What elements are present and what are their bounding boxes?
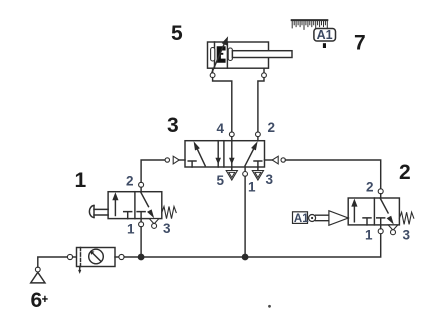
V2 actuator A1 label box	[293, 212, 310, 225]
svg-text:2: 2	[399, 161, 411, 184]
wire V3 port1 to bus	[244, 176, 246, 257]
svg-text:1: 1	[75, 169, 87, 192]
sensor A1 mark	[323, 43, 326, 48]
V3 right box blocked 3 T	[254, 161, 262, 167]
V2 left box blocked T	[363, 218, 371, 225]
svg-text:2: 2	[126, 174, 134, 189]
V3 left box flow 2->3	[215, 141, 221, 167]
valve V1 body	[108, 192, 162, 219]
V1 right box blocked port T	[137, 212, 145, 219]
V3 left pilot	[165, 156, 185, 164]
V2 actuator roller	[309, 215, 316, 222]
cylinder barrel	[208, 42, 269, 68]
V3 port 2	[256, 132, 261, 141]
ruler distance scale	[292, 20, 328, 29]
V1 right box flow 2->3 diagonal	[141, 192, 155, 219]
V1 left box flow arrow 1->2	[112, 192, 118, 215]
V3 port 1	[243, 167, 248, 176]
V3 right box flow 4->5	[229, 141, 235, 167]
svg-text:1: 1	[365, 228, 373, 243]
cylinder piston plates	[215, 42, 228, 68]
svg-text:3: 3	[403, 228, 411, 243]
V2 port 2	[378, 189, 383, 198]
wire supply to service unit	[38, 257, 68, 267]
V3 right box flow 1->2 diagonal	[245, 141, 258, 166]
piston rod	[232, 51, 292, 58]
cushion boss left	[211, 48, 215, 62]
service unit (filter/regulator)	[67, 248, 124, 274]
V2 actuator stem	[316, 215, 329, 221]
bus wire bottom	[124, 234, 381, 257]
junction dot A	[138, 254, 145, 261]
svg-text:2: 2	[366, 180, 374, 195]
svg-text:5: 5	[217, 173, 225, 188]
V1 port 1	[139, 219, 144, 227]
V3 left box blocked 5 T	[188, 161, 196, 167]
wire V1 port2 to V3 left pilot	[141, 160, 165, 182]
cylinder port left	[210, 68, 215, 77]
V3 exhaust 3	[252, 167, 263, 180]
V2 actuator triangle	[329, 211, 348, 226]
V3 left box flow 1->4 diagonal	[194, 141, 206, 166]
svg-text:3: 3	[163, 221, 171, 236]
svg-text:A1: A1	[294, 213, 309, 225]
wire cylinder left port to V3 port4	[213, 78, 232, 132]
sensor A1 box	[314, 28, 336, 42]
svg-text:7: 7	[354, 32, 366, 55]
cushion boss right	[228, 48, 232, 61]
V1 push button actuator	[89, 206, 108, 218]
V1 port 2	[139, 182, 144, 191]
stray dot mark	[268, 305, 271, 308]
svg-text:2: 2	[268, 120, 276, 135]
svg-text:3: 3	[167, 114, 179, 137]
air supply 6	[31, 267, 45, 283]
V1 left box blocked port T	[124, 212, 132, 219]
wire cylinder right port to V3 port2	[258, 78, 264, 132]
valve V3 body (5/2)	[185, 141, 265, 167]
label 6 plus mark	[43, 297, 47, 302]
V1 port 3 exhaust	[149, 219, 159, 229]
V2 left box flow arrow 1->2	[351, 199, 357, 222]
wire V3 right pilot to V2 port2	[285, 160, 380, 189]
V2 right box flow 2->3 diagonal	[380, 198, 394, 225]
junction dot B	[242, 254, 249, 261]
magnet on piston (black bracket)	[217, 46, 226, 63]
cushion adjust arrow	[212, 36, 228, 72]
cylinder port right	[262, 68, 267, 77]
V2 return spring	[399, 212, 413, 224]
svg-text:A1: A1	[317, 28, 333, 42]
svg-text:1: 1	[127, 222, 135, 237]
valve V2 body	[348, 198, 399, 225]
V2 port 3 exhaust	[388, 225, 398, 235]
wire V1 port1 to bus	[140, 227, 142, 257]
svg-text:6: 6	[31, 289, 43, 311]
svg-text:1: 1	[248, 180, 256, 195]
V3 right pilot	[265, 156, 286, 164]
V3 port 4	[229, 132, 234, 141]
V3 exhaust 5	[226, 167, 237, 180]
svg-text:4: 4	[217, 121, 225, 136]
V2 right box blocked T	[377, 218, 385, 225]
svg-text:5: 5	[171, 22, 183, 45]
V1 return spring	[162, 207, 176, 219]
V2 port 1	[378, 225, 383, 234]
svg-text:3: 3	[266, 172, 274, 187]
